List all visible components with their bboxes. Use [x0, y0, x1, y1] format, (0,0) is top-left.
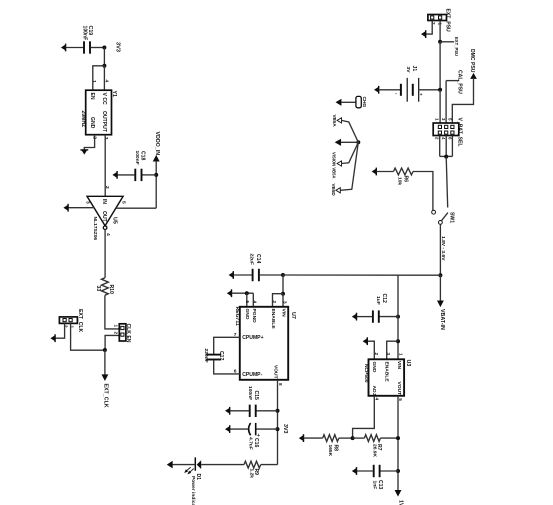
capacitor C15 — [249, 405, 251, 417]
wire EXT_CLK pin2 to ground — [55, 323, 64, 338]
svg-text:CPUMP+: CPUMP+ — [242, 335, 263, 341]
wire ENABLE bracket — [387, 341, 398, 359]
capacitor C18 — [134, 169, 136, 181]
wire pin6 down — [451, 136, 453, 157]
ground (U3) — [366, 337, 368, 345]
wire EXT_CLK pin1 down — [71, 323, 105, 350]
svg-text:Y1: Y1 — [111, 91, 117, 98]
capacitor C16 (polarized) — [249, 423, 251, 435]
wire CAL_PSU down — [445, 81, 447, 123]
svg-text:V_BAT_SEL: V_BAT_SEL — [457, 118, 463, 147]
junction EXT_PSU net — [438, 40, 442, 44]
wire — [353, 437, 365, 439]
wire GND stub — [246, 293, 248, 307]
ground (J1) — [378, 86, 380, 94]
wire U5 out to R10 — [104, 230, 106, 278]
capacitor C17 — [206, 354, 221, 356]
svg-text:100nF: 100nF — [247, 386, 253, 400]
wire — [380, 470, 398, 472]
svg-text:2: 2 — [374, 353, 379, 356]
wire bus down — [439, 42, 441, 90]
wire CAL_PSU stub — [446, 80, 459, 82]
svg-text:4: 4 — [252, 301, 257, 304]
header pins bottom row — [438, 131, 441, 134]
svg-text:4: 4 — [441, 137, 446, 140]
wire — [304, 437, 323, 439]
wire — [379, 89, 401, 91]
capacitor C13 — [373, 465, 375, 477]
capacitor C12 — [372, 310, 374, 322]
svg-text:VBAT-IN: VBAT-IN — [439, 309, 445, 330]
oscillator Y1 box — [86, 90, 112, 135]
resistor R8 — [323, 435, 339, 442]
IC U7 box — [240, 307, 288, 380]
IC U3 box — [369, 359, 405, 396]
svg-text:ENABLE: ENABLE — [384, 362, 390, 383]
svg-text:1nF: 1nF — [372, 481, 378, 490]
port arrow VB5A — [337, 118, 341, 123]
resistor R10 — [102, 278, 109, 295]
svg-text:22uF: 22uF — [249, 254, 255, 265]
svg-text:VISION VB5A: VISION VB5A — [331, 152, 336, 179]
port arrow VISION — [337, 161, 341, 166]
wire Y1 GND pin to ground — [84, 135, 94, 150]
svg-text:GND: GND — [244, 309, 250, 320]
junction — [102, 64, 106, 68]
header V_BAT_SEL box — [433, 123, 459, 136]
junction EXT_CLK node — [103, 348, 107, 352]
inverter bubble — [103, 226, 107, 230]
ground (C13) — [356, 467, 358, 475]
port arrow VBAT-IN — [438, 301, 443, 306]
svg-text:OUT: OUT — [101, 211, 107, 223]
svg-text:C12: C12 — [381, 294, 387, 304]
svg-text:8: 8 — [278, 383, 283, 386]
wire pin2 down — [439, 136, 441, 157]
svg-text:3V3: 3V3 — [114, 42, 120, 52]
svg-text:U7: U7 — [290, 312, 296, 319]
wire U5 vcc pin — [116, 207, 156, 209]
svg-text:3V: 3V — [405, 67, 411, 74]
wire bus — [397, 275, 399, 359]
wire U5 gnd pin — [68, 207, 94, 209]
wire to VBAT-IN port — [439, 275, 441, 301]
header EXT_PSU box — [428, 15, 447, 21]
svg-text:EXT_CLK: EXT_CLK — [77, 309, 83, 333]
resistor R7 — [364, 435, 380, 442]
svg-text:1: 1 — [398, 353, 403, 356]
wire ADJ down — [353, 396, 375, 438]
wire — [379, 316, 398, 318]
svg-text:VB5D: VB5D — [331, 184, 336, 197]
wire — [142, 174, 156, 176]
wire — [342, 120, 359, 142]
wire — [341, 141, 359, 143]
svg-text:+: + — [420, 92, 423, 97]
svg-text:5: 5 — [245, 301, 250, 304]
ground (U7 gnd pins) — [231, 289, 233, 297]
port arrow VDDO_IN — [154, 156, 159, 161]
junction C13 — [396, 469, 400, 473]
svg-text:VB5A: VB5A — [332, 115, 337, 128]
wire — [155, 161, 157, 208]
wire — [105, 295, 119, 329]
svg-text:1uF: 1uF — [375, 296, 381, 305]
junction C14/VIN — [281, 273, 285, 277]
svg-text:PGND: PGND — [251, 309, 257, 324]
svg-text:3V3: 3V3 — [282, 424, 288, 433]
wire — [342, 142, 359, 163]
svg-text:OUTPUT: OUTPUT — [101, 111, 107, 133]
wire — [230, 410, 249, 412]
svg-text:C15: C15 — [253, 391, 259, 401]
wire pin1 down — [439, 21, 441, 42]
wire — [233, 274, 252, 276]
svg-text:5: 5 — [398, 398, 403, 401]
capacitor C14 — [252, 269, 254, 281]
battery J1 — [400, 84, 402, 96]
svg-text:CAL_PSU: CAL_PSU — [457, 70, 463, 94]
LED arrows — [188, 469, 193, 474]
svg-text:GND: GND — [371, 362, 377, 373]
wire — [259, 274, 283, 276]
svg-text:-: - — [395, 91, 397, 97]
junction C15 — [276, 409, 280, 413]
wire — [201, 464, 244, 466]
wire main horizontal — [283, 274, 440, 276]
wire — [230, 428, 248, 430]
junction C16 — [276, 427, 280, 431]
wire Y1 OUTPUT to U5 — [104, 135, 106, 197]
wire VOUT bus down — [397, 396, 399, 491]
ground (C18) — [116, 171, 118, 179]
svg-text:3: 3 — [85, 201, 91, 204]
wire ENABLE bracket — [273, 294, 284, 307]
svg-text:CLK EN: CLK EN — [125, 324, 131, 343]
header pins top row — [438, 125, 441, 128]
wire — [256, 428, 277, 430]
ground (C14) — [232, 271, 234, 279]
wire pin4 down — [445, 136, 447, 157]
svg-text:2: 2 — [104, 186, 110, 189]
header CLK_EN pins — [121, 326, 124, 329]
wire — [413, 172, 433, 211]
junction battery node — [438, 88, 442, 92]
header CLK_EN box — [119, 324, 126, 341]
wire — [103, 48, 105, 66]
svg-text:3: 3 — [282, 301, 287, 304]
junction VBAT node — [438, 273, 442, 277]
port arrow VB5D — [336, 188, 340, 193]
jumper CHG box — [356, 96, 361, 107]
svg-text:DMC PSU: DMC PSU — [469, 49, 475, 73]
svg-text:1: 1 — [91, 80, 97, 83]
svg-text:VIN: VIN — [396, 361, 402, 370]
svg-text:EXT_CLK: EXT_CLK — [103, 384, 109, 408]
svg-text:EXT_PSU: EXT_PSU — [454, 37, 459, 56]
ground (C15) — [229, 407, 231, 415]
wire VIN stub — [282, 294, 284, 307]
wire — [66, 47, 84, 49]
wire down to EXT_CLK port — [104, 350, 106, 375]
svg-text:2: 2 — [113, 332, 118, 335]
port arrow EXT_CLK — [102, 375, 107, 380]
svg-text:4.7uF: 4.7uF — [247, 437, 253, 450]
svg-text:4: 4 — [104, 80, 110, 83]
wire to switch — [446, 157, 448, 208]
wire bus to header — [439, 90, 441, 123]
switch SW1 lever — [442, 213, 448, 221]
junction — [281, 292, 285, 296]
junction C12 — [396, 315, 400, 319]
svg-text:Power indicator: Power indicator — [190, 476, 196, 505]
svg-text:C17: C17 — [218, 351, 224, 361]
svg-text:R8: R8 — [332, 445, 338, 452]
svg-text:C13: C13 — [377, 480, 383, 490]
port arrow (filled) — [336, 140, 341, 146]
svg-text:4: 4 — [375, 398, 380, 401]
capacitor C19 — [83, 41, 85, 53]
ground (C16) — [229, 425, 231, 433]
svg-text:R6: R6 — [403, 176, 409, 183]
svg-text:VDDO_IN: VDDO_IN — [154, 132, 160, 156]
wire — [340, 142, 358, 190]
LED D1 — [197, 460, 202, 469]
svg-text:220nF: 220nF — [203, 349, 209, 363]
wire pin2 to ground — [426, 21, 432, 35]
port arrow DMC PSU — [471, 74, 476, 79]
wire — [341, 101, 356, 103]
svg-text:10k: 10k — [397, 177, 403, 185]
svg-text:ADJ: ADJ — [371, 386, 377, 396]
header EXT_CLK pins — [63, 319, 66, 322]
svg-text:26.9K: 26.9K — [372, 444, 378, 458]
ground (EXT_PSU) — [425, 30, 427, 38]
wire — [357, 316, 373, 318]
svg-text:VOUT: VOUT — [396, 382, 402, 396]
svg-text:EN: EN — [89, 93, 95, 100]
svg-text:1.2k: 1.2k — [248, 469, 254, 479]
svg-text:C16: C16 — [253, 438, 259, 448]
wire — [261, 464, 278, 466]
ground (C19 left) — [65, 44, 67, 52]
svg-text:VOUT: VOUT — [273, 365, 279, 379]
svg-text:6: 6 — [447, 137, 452, 140]
wire — [357, 470, 374, 472]
svg-text:REG711: REG711 — [234, 307, 240, 326]
wire joining — [440, 155, 453, 157]
wire C17 to CPUMP- — [214, 360, 240, 374]
svg-text:NL17SZ06: NL17SZ06 — [92, 217, 98, 241]
node 3V3 junction — [102, 46, 106, 50]
junction ADJ node — [351, 436, 355, 440]
svg-text:U5: U5 — [111, 217, 117, 224]
wire — [419, 89, 440, 91]
junction V_BAT node — [444, 155, 448, 159]
svg-text:100nF: 100nF — [81, 26, 87, 41]
wire GND to ground — [367, 341, 374, 359]
svg-text:165K: 165K — [327, 445, 333, 457]
header EXT_CLK box — [59, 317, 77, 324]
ground (R8) — [303, 434, 305, 442]
svg-text:EXT_PSU: EXT_PSU — [444, 9, 450, 33]
wire stub — [440, 41, 454, 43]
svg-text:1: 1 — [434, 118, 439, 121]
wire — [380, 437, 398, 439]
port arrow 1V8 — [395, 491, 400, 496]
svg-text:U3: U3 — [405, 360, 411, 367]
wire DMC down — [452, 78, 473, 123]
svg-text:D1: D1 — [195, 474, 201, 481]
ground (R6) — [375, 168, 377, 176]
port arrow (CHG) — [336, 100, 341, 106]
svg-text:1: 1 — [113, 325, 118, 328]
ground (EXT_CLK) — [54, 334, 56, 342]
switch pole contact — [439, 221, 443, 225]
svg-text:ENABLE: ENABLE — [270, 309, 276, 330]
svg-text:2: 2 — [272, 301, 277, 304]
svg-text:3: 3 — [386, 353, 391, 356]
ground (Y1) — [80, 149, 88, 151]
svg-text:33: 33 — [95, 286, 101, 292]
svg-text:C14: C14 — [255, 254, 261, 264]
ground (C12) — [356, 313, 358, 321]
svg-text:CPUMP-: CPUMP- — [242, 372, 262, 378]
junction — [245, 291, 249, 295]
wire pole down — [439, 224, 441, 275]
wire PGND stub — [252, 293, 254, 307]
svg-text:3: 3 — [441, 118, 446, 121]
port arrow (D1 anode) — [168, 462, 173, 468]
svg-text:GND: GND — [89, 117, 95, 129]
wire — [339, 437, 353, 439]
node fan junction — [356, 140, 360, 144]
junction — [154, 173, 158, 177]
svg-text:1V8: 1V8 — [398, 500, 404, 505]
svg-text:SW1: SW1 — [448, 212, 454, 223]
switch throw contact — [432, 210, 436, 214]
svg-text:V CC: V CC — [101, 93, 107, 105]
svg-text:J1: J1 — [411, 66, 417, 72]
svg-text:20MHZ: 20MHZ — [80, 111, 86, 128]
ground (U5) — [67, 204, 69, 212]
wire to Y1 VCC — [103, 66, 105, 90]
svg-text:IN: IN — [101, 199, 107, 204]
wire to Y1 EN — [93, 66, 105, 90]
svg-text:2: 2 — [434, 137, 439, 140]
inverter U5 triangle — [87, 196, 123, 226]
wire — [171, 464, 195, 466]
svg-text:C18: C18 — [140, 151, 146, 161]
wire VOUT down — [277, 380, 279, 465]
svg-text:R10: R10 — [108, 285, 114, 295]
wire CLK_EN pin2 — [105, 335, 119, 350]
wire — [91, 47, 105, 49]
wire — [256, 410, 277, 412]
wire VIN drop — [282, 275, 284, 294]
wire CPUMP+ to C17 — [214, 337, 240, 354]
junction ENABLE — [396, 339, 400, 343]
resistor R6 — [394, 168, 414, 175]
svg-text:CHG: CHG — [361, 97, 367, 108]
svg-text:1.8V - 3.6V: 1.8V - 3.6V — [440, 236, 446, 261]
svg-text:5: 5 — [120, 201, 126, 204]
svg-text:100nF: 100nF — [134, 151, 140, 165]
wire — [376, 171, 393, 173]
svg-text:VIN: VIN — [280, 309, 286, 318]
header EXT_PSU pins — [431, 16, 434, 19]
svg-text:NCP500: NCP500 — [363, 364, 369, 383]
wire — [232, 292, 254, 294]
wire — [117, 174, 135, 176]
junction R7 node — [396, 436, 400, 440]
resistor R9 — [244, 461, 261, 468]
svg-text:6: 6 — [234, 368, 237, 374]
